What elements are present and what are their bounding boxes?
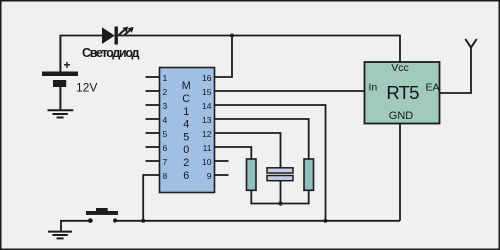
- wire crystal bottom: [280, 181, 282, 204]
- svg-text:15: 15: [202, 87, 212, 97]
- wire pin 10 stub: [215, 160, 229, 162]
- resistor R1: [247, 159, 257, 190]
- svg-text:GND: GND: [389, 110, 414, 122]
- LED (Светодиод): [102, 27, 400, 63]
- svg-text:13: 13: [202, 115, 212, 125]
- pushbutton: [86, 208, 118, 223]
- svg-text:1: 1: [163, 73, 168, 83]
- junction pin8 drop on bus: [141, 219, 145, 223]
- wire RT5 EA to antenna: [440, 48, 472, 94]
- wire V+ from battery top to LED anode: [60, 35, 103, 37]
- svg-text:2: 2: [163, 87, 168, 97]
- svg-text:+: +: [64, 58, 71, 72]
- svg-text:Vcc: Vcc: [391, 62, 409, 74]
- wire RT5 GND to bus: [399, 124, 401, 221]
- wire pin 2 stub: [146, 90, 160, 92]
- ground bus wire: [115, 220, 400, 222]
- svg-text:4: 4: [183, 119, 189, 131]
- svg-text:EA: EA: [426, 82, 440, 94]
- svg-text:0: 0: [183, 144, 189, 156]
- svg-text:7: 7: [163, 157, 168, 167]
- svg-text:M: M: [182, 80, 191, 92]
- wire battery negative to ground: [59, 87, 61, 110]
- wire pin 11 to resistor R1: [215, 147, 252, 159]
- svg-text:9: 9: [207, 171, 212, 181]
- wire oscillator bottom tie: [251, 190, 308, 203]
- svg-text:6: 6: [163, 143, 168, 153]
- wire pin 12 to crystal: [215, 133, 281, 168]
- IC MC145026: [160, 68, 215, 193]
- wire battery positive to V+ wire: [59, 36, 61, 72]
- wire pin 14 to ground bus: [215, 105, 326, 221]
- svg-text:16: 16: [202, 73, 212, 83]
- svg-text:1: 1: [183, 106, 189, 118]
- svg-text:2: 2: [183, 157, 189, 169]
- ground (pushbutton): [48, 232, 72, 239]
- ground (battery): [48, 110, 74, 117]
- wire pushbutton to ground: [61, 221, 90, 232]
- wire pin 16 to V+: [215, 36, 233, 78]
- svg-text:Светодиод: Светодиод: [82, 46, 139, 60]
- svg-text:C: C: [182, 93, 190, 105]
- wire pin 4 stub: [146, 118, 160, 120]
- battery 12V: [42, 72, 78, 88]
- svg-text:14: 14: [202, 101, 212, 111]
- label 12V: [76, 81, 97, 95]
- wire pin 9 stub: [215, 174, 229, 176]
- label +: [64, 58, 71, 72]
- antenna: [465, 39, 476, 48]
- svg-text:3: 3: [163, 101, 168, 111]
- label Светодиод: [82, 46, 139, 60]
- wire pin 8 to ground bus: [143, 175, 159, 221]
- svg-text:5: 5: [163, 129, 168, 139]
- wire pin 13 to resistor R2: [215, 119, 309, 159]
- junction oscillator tie: [278, 201, 282, 205]
- RF module RT5: [365, 62, 440, 124]
- wire pin 15 to RT5 In: [215, 90, 365, 92]
- wire pin 3 stub: [146, 104, 160, 106]
- svg-text:5: 5: [183, 131, 189, 143]
- svg-text:12V: 12V: [76, 81, 97, 95]
- svg-text:In: In: [369, 82, 378, 94]
- junction on V+ wire: [230, 34, 234, 38]
- IC right pin numbers 16-9: [202, 73, 212, 181]
- svg-text:8: 8: [163, 171, 168, 181]
- svg-text:6: 6: [183, 170, 189, 182]
- junction pin14 drop on bus: [324, 219, 328, 223]
- svg-text:12: 12: [202, 129, 212, 139]
- wire pin 6 stub: [146, 146, 160, 148]
- svg-text:10: 10: [202, 157, 212, 167]
- wire pin 7 stub: [146, 160, 160, 162]
- wire pin 1 stub: [146, 76, 160, 78]
- svg-text:11: 11: [203, 143, 212, 153]
- IC left pin numbers 1-8: [163, 73, 168, 181]
- wire pin 5 stub: [146, 132, 160, 134]
- svg-text:4: 4: [163, 115, 168, 125]
- resistor R2: [304, 159, 314, 190]
- svg-text:RT5: RT5: [386, 82, 419, 103]
- crystal: [267, 168, 293, 181]
